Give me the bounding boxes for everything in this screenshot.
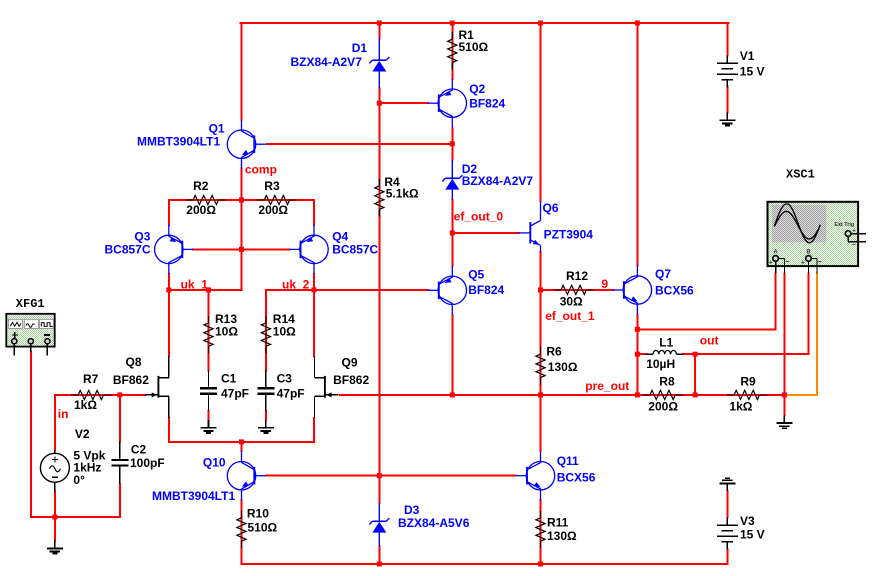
svg-text:Q10: Q10 (203, 456, 226, 470)
wire XFG1 output down (30, 352, 32, 517)
junction rail-D1 (377, 21, 382, 26)
wire uk_1 to R13 (208, 290, 210, 316)
transistor Q7 BCX56 (613, 266, 652, 315)
svg-text:0°: 0° (73, 473, 85, 487)
svg-text:R7: R7 (83, 372, 99, 386)
svg-text:A: A (773, 249, 778, 255)
wire Q7 emitter to scope A+ (637, 328, 775, 330)
transistor Q3 BC857C (155, 225, 194, 274)
svg-text:D1: D1 (352, 41, 368, 55)
wire R2 left to Q3 emitter (168, 200, 170, 225)
svg-text:V2: V2 (75, 427, 90, 441)
wire scope A+ down (775, 274, 777, 330)
resistor R10 (237, 509, 246, 549)
svg-text:R12: R12 (566, 269, 588, 283)
svg-text:R6: R6 (546, 345, 562, 359)
wire scope A- down (783, 274, 785, 395)
svg-text:15 V: 15 V (740, 64, 765, 78)
svg-text:47pF: 47pF (221, 386, 249, 400)
svg-text:Q2: Q2 (469, 82, 485, 96)
wire to ground at R9 (783, 395, 785, 415)
junction uk_1 R13 (206, 287, 211, 292)
svg-text:100pF: 100pF (130, 456, 165, 470)
capacitor C1 (200, 388, 217, 394)
svg-text:BZX84-A2V7: BZX84-A2V7 (291, 55, 363, 69)
wire D3 to bottom rail (378, 546, 380, 564)
svg-text:Q11: Q11 (557, 454, 579, 468)
svg-text:BF862: BF862 (113, 373, 149, 387)
wire Q1 base row (267, 143, 453, 145)
svg-text:10Ω: 10Ω (215, 324, 238, 338)
AC source V2 (40, 450, 69, 492)
wire Q7 emitter down to pre_out (636, 315, 638, 395)
wire orange to R9 node (784, 394, 817, 396)
resistor R3 (242, 195, 315, 204)
svg-text:15 V: 15 V (740, 528, 765, 542)
svg-text:C2: C2 (131, 442, 147, 456)
junction out L1 right (693, 352, 698, 357)
svg-text:ef_out_1: ef_out_1 (545, 309, 595, 323)
svg-text:L1: L1 (659, 335, 673, 349)
svg-text:MMBT3904LT1: MMBT3904LT1 (152, 489, 235, 503)
wire Q4 collector to uk_2 to Q9 drain (313, 274, 315, 356)
svg-text:C3: C3 (277, 372, 293, 386)
svg-text:Q8: Q8 (126, 355, 142, 369)
junction rail-Q6 (538, 21, 543, 26)
wire V2 minus down (54, 492, 56, 518)
wire uk_2 to R14 (265, 290, 267, 316)
resistor R9 (695, 390, 784, 399)
resistor R7 (55, 390, 120, 399)
wire Q1 collector from rail (241, 23, 243, 120)
transistor Q4 BC857C (290, 225, 329, 274)
wire V1 to ground (726, 87, 728, 113)
svg-text:510Ω: 510Ω (459, 40, 489, 54)
transistor Q8 BF862 JFET (145, 356, 169, 418)
svg-text:BCX56: BCX56 (655, 283, 694, 297)
svg-text:130Ω: 130Ω (548, 360, 578, 374)
svg-text:Q4: Q4 (332, 229, 348, 243)
wire tail rail Q8-Q9 sources (169, 441, 314, 443)
wire bottom-left rail (31, 516, 120, 518)
svg-text:30Ω: 30Ω (560, 295, 583, 309)
junction uk_1 Q3 (166, 287, 171, 292)
wire ef_out_1 to R12 (541, 289, 553, 291)
svg-text:pre_out: pre_out (585, 379, 629, 393)
junction tail-Q10 (239, 439, 244, 444)
svg-text:Q7: Q7 (655, 267, 671, 281)
wire rail to D1 (378, 23, 380, 39)
svg-text:10µH: 10µH (646, 357, 675, 371)
svg-text:MMBT3904LT1: MMBT3904LT1 (137, 135, 220, 149)
ground at V2 (47, 541, 63, 554)
diode D1 leads (378, 39, 380, 89)
wire in node down to V2 (54, 395, 56, 450)
wire R10 to bottom rail (241, 550, 243, 564)
svg-text:130Ω: 130Ω (547, 529, 577, 543)
wire R13 to C1 (208, 353, 210, 371)
resistor R14 (261, 316, 270, 353)
svg-text:Q1: Q1 (209, 122, 225, 136)
svg-text:BF824: BF824 (468, 283, 504, 297)
wire R7 to Q8 gate (111, 394, 145, 396)
svg-text:R10: R10 (247, 507, 269, 521)
svg-text:BZX84-A2V7: BZX84-A2V7 (462, 174, 534, 188)
junction R9-scope A- (782, 392, 787, 397)
ground at C1 (201, 420, 217, 433)
svg-text:Q6: Q6 (543, 201, 559, 215)
wire D2 to ef_out_0 (451, 200, 453, 233)
svg-text:XFG1: XFG1 (16, 297, 45, 311)
capacitor C1 leads (208, 371, 210, 412)
wire ef_out_1 to R6 (540, 290, 542, 347)
wire out row (695, 353, 808, 355)
svg-text:comp: comp (245, 162, 277, 176)
capacitor C2 leads (119, 442, 121, 485)
svg-text:BC857C: BC857C (332, 242, 378, 256)
wire ef_out_0 to Q5 emitter (451, 233, 453, 266)
svg-text:B: B (806, 249, 811, 255)
svg-text:V3: V3 (740, 514, 755, 528)
junction R7-C2-Q8 gate (117, 392, 122, 397)
wire R2 left lead (169, 199, 186, 201)
wire pre_out row (452, 394, 784, 396)
svg-text:BF824: BF824 (469, 96, 505, 110)
diode D2 leads (451, 160, 453, 200)
wire rail to Q7 collector (636, 23, 638, 265)
junction pre_out R8 (635, 392, 640, 397)
wire rail to V1 (726, 23, 728, 56)
junction pre_out R6 (538, 392, 543, 397)
svg-text:Q3: Q3 (134, 229, 150, 243)
svg-text:R11: R11 (547, 516, 569, 530)
ground at C3 (258, 420, 274, 433)
svg-text:−: − (818, 259, 822, 266)
wire rail to Q6 collector (540, 23, 542, 201)
wire ef_out_0 to Q6 base (452, 232, 518, 234)
svg-text:−: − (785, 259, 789, 266)
wire scope B- down (orange) (816, 274, 818, 395)
transistor Q5 BF824 (428, 266, 467, 315)
junction D3-Q10-Q11 bases (377, 473, 382, 478)
svg-text:R3: R3 (264, 179, 280, 193)
ground at V3 (inverted) (719, 478, 735, 491)
wire out tap down to R8-R9 (694, 354, 696, 395)
svg-text:BCX56: BCX56 (557, 471, 596, 485)
svg-text:9: 9 (601, 277, 608, 291)
svg-text:Ext Trig: Ext Trig (834, 222, 854, 228)
wire to ground at V2 (54, 517, 56, 541)
zener diode D1 (369, 57, 389, 72)
junction L1 left (635, 352, 640, 357)
wire C2 bottom (119, 484, 121, 517)
wire uk_2 row to Q5 base (266, 289, 428, 291)
transistor Q2 BF824 (428, 79, 467, 128)
wire Q2 collector to D2 (451, 129, 453, 160)
junction bottom rail D3 (377, 562, 382, 567)
wire scope B+ down (808, 274, 810, 355)
wire node to C2 (119, 395, 121, 442)
zener diode D3 (369, 518, 389, 533)
junction uk_2 Q4 (312, 287, 317, 292)
junction comp R2-R3 (239, 198, 244, 203)
wire C1 to ground (208, 411, 210, 420)
wire to L1 (637, 353, 646, 355)
resistor R11 (536, 509, 545, 549)
svg-text:R2: R2 (193, 179, 209, 193)
transistor Q6 PZT3904 (518, 201, 540, 252)
junction ef_out_1 (538, 287, 543, 292)
svg-text:uk_2: uk_2 (282, 278, 310, 292)
wire Q9 gate to pre_out (340, 394, 453, 396)
wire uk_1 row (169, 289, 242, 291)
resistor R13 (204, 316, 213, 353)
wire C3 to ground (265, 411, 267, 420)
wire in node to R7 (55, 394, 71, 396)
svg-text:BC857C: BC857C (105, 242, 151, 256)
svg-text:+: + (852, 229, 856, 235)
svg-text:BF862: BF862 (333, 373, 369, 387)
wire comp node R2-R3 (226, 199, 257, 201)
svg-text:Q5: Q5 (468, 267, 484, 281)
wire V3 to bottom rail (726, 549, 728, 564)
transistor Q11 BCX56 (516, 451, 555, 500)
wire R11 to bottom rail (540, 550, 542, 564)
resistor R6 (536, 347, 545, 384)
wire to Q2 base (379, 102, 428, 104)
junction V2-ground (52, 515, 57, 520)
capacitor C3 leads (265, 371, 267, 412)
wire rail to R1 (451, 23, 453, 32)
wire +15V top rail (241, 22, 729, 24)
wire R12 to Q7 base node 9 (591, 289, 613, 291)
junction pre_out Q5 (450, 392, 455, 397)
wire R4 to D3 column (378, 216, 380, 503)
svg-text:+: + (801, 259, 805, 266)
wire ground to V3 (726, 491, 728, 517)
svg-text:out: out (700, 334, 719, 348)
svg-text:200Ω: 200Ω (648, 399, 678, 413)
battery V3 15V (717, 518, 738, 550)
wire Q10 base to Q11 base (266, 475, 516, 477)
junction rail-R1 (450, 21, 455, 26)
junction Q1 base Q2 collector (450, 141, 455, 146)
junction bottom rail R11 (538, 562, 543, 567)
battery V1 15V (717, 56, 738, 88)
junction Q7 emitter scope A+ (635, 327, 640, 332)
svg-text:−: − (851, 242, 855, 249)
wire Q3 base to Q4 base (193, 248, 290, 250)
wire D1 to Q2 base node (378, 89, 380, 104)
wire L1 to out node (683, 353, 695, 355)
wire tail to Q10 collector (241, 442, 243, 451)
transistor Q9 BF862 JFET (315, 356, 339, 418)
junction D1-Q2 base (377, 101, 382, 106)
diode D3 leads (378, 503, 380, 546)
svg-text:200Ω: 200Ω (258, 203, 288, 217)
capacitor C3 (257, 388, 274, 394)
svg-text:uk_1: uk_1 (181, 278, 209, 292)
wire Q3 collector to uk_1 to Q8 drain (168, 274, 170, 356)
svg-text:1kΩ: 1kΩ (74, 398, 97, 412)
wire pre_out to Q11 collector (540, 395, 542, 451)
svg-text:PZT3904: PZT3904 (544, 227, 594, 241)
svg-text:XSC1: XSC1 (786, 167, 815, 181)
capacitor C2 (111, 460, 128, 466)
svg-text:in: in (58, 407, 69, 421)
wire R3 to Q4 emitter (313, 200, 315, 225)
svg-text:10Ω: 10Ω (273, 324, 296, 338)
junction rail-Q7 (635, 21, 640, 26)
svg-text:D3: D3 (404, 503, 420, 517)
wire R14 to C3 (265, 353, 267, 371)
instrument XSC1 oscilloscope (768, 202, 867, 274)
svg-text:R8: R8 (659, 374, 675, 388)
svg-text:5.1kΩ: 5.1kΩ (386, 187, 419, 201)
svg-text:47pF: 47pF (277, 386, 305, 400)
svg-text:R9: R9 (740, 374, 756, 388)
instrument XFG1 function generator (6, 314, 54, 356)
zener diode D2 (442, 175, 462, 190)
inductor L1 (646, 350, 683, 354)
resistor R2 (169, 195, 242, 204)
wire Q1 emitter to comp node down to uk_1 row (241, 168, 243, 290)
wire Q5 collector to pre_out (451, 315, 453, 395)
wire Q11 emitter to R11 (540, 500, 542, 509)
wire Q10 emitter to R10 (241, 500, 243, 509)
ground at R9 (776, 415, 792, 428)
svg-text:V1: V1 (740, 49, 755, 63)
svg-text:200Ω: 200Ω (186, 203, 216, 217)
svg-text:BZX84-A5V6: BZX84-A5V6 (398, 516, 470, 530)
wire Q6 emitter to ef_out_1 (540, 252, 542, 290)
resistor R4 (375, 179, 384, 216)
ground at V1 (719, 113, 735, 126)
svg-text:1kΩ: 1kΩ (729, 399, 752, 413)
svg-text:Q9: Q9 (342, 356, 358, 370)
resistor R1 (448, 32, 457, 71)
junction ef_out_0 (450, 230, 455, 235)
wire Q2 base node to R4 (378, 103, 380, 179)
wire R6 to pre_out (540, 385, 542, 395)
wire bottom rail (242, 563, 728, 565)
svg-text:C1: C1 (221, 372, 237, 386)
transistor Q10 MMBT3904LT1 (227, 451, 266, 500)
resistor R12 (541, 285, 614, 294)
wire R3 right lead (297, 199, 315, 201)
wire Q8 source down (168, 418, 170, 442)
wire R1 to Q2 emitter (451, 71, 453, 79)
junction R8-R9 out tap (693, 392, 698, 397)
resistor R8 (637, 390, 695, 399)
svg-text:510Ω: 510Ω (248, 521, 278, 535)
svg-text:+: + (769, 259, 773, 266)
transistor Q1 MMBT3904LT1 (227, 120, 266, 169)
wire Q9 source down (313, 418, 315, 442)
svg-text:ef_out_0: ef_out_0 (454, 209, 504, 223)
junction Q3-Q4 bases (239, 247, 244, 252)
